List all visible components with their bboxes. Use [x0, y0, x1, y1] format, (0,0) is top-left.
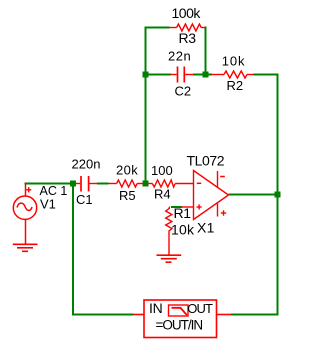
transfer function block body	[144, 300, 217, 338]
wire op-amp output	[229, 194, 279, 196]
wire top feedback horizontal	[145, 27, 170, 29]
resistor R1	[166, 207, 172, 256]
svg-text:C2: C2	[175, 84, 192, 99]
wire left feedback vertical	[145, 27, 147, 185]
svg-text:R3: R3	[179, 30, 197, 46]
node A junction	[70, 181, 76, 187]
svg-text:10k: 10k	[171, 222, 195, 238]
svg-text:OUT: OUT	[187, 301, 213, 316]
resistor R5	[109, 180, 144, 187]
svg-text:=OUT/IN: =OUT/IN	[156, 318, 203, 333]
op-amp X1 input lead plus	[182, 206, 194, 208]
svg-text:100k: 100k	[172, 5, 202, 21]
node E junction (output)	[275, 192, 281, 198]
wire bottom row right	[231, 314, 279, 316]
svg-text:100: 100	[151, 163, 173, 178]
transfer function block icon curve	[172, 308, 187, 315]
svg-text:X1: X1	[197, 220, 215, 236]
op-amp power top minus label	[220, 176, 225, 178]
resistor R2	[212, 71, 254, 78]
svg-text:R5: R5	[119, 188, 136, 203]
node C junction (C2 left)	[143, 72, 149, 78]
op-amp power bottom plus label	[221, 210, 226, 215]
op-amp minus mark	[197, 182, 201, 184]
wire R2 to right corner	[254, 75, 278, 77]
wire V1 to node A	[25, 183, 74, 185]
op-amp plus mark	[197, 204, 202, 209]
ground V1	[13, 244, 38, 251]
transfer function block icon	[169, 305, 189, 316]
wire R2 left stub	[206, 74, 213, 76]
op-amp power pin top	[217, 171, 219, 188]
node D junction (C2 right)	[203, 72, 209, 78]
plus mark V1	[26, 187, 31, 192]
node B junction (R5/R4)	[143, 181, 149, 187]
resistor R4	[148, 180, 194, 187]
capacitor C2	[171, 67, 193, 83]
svg-text:R2: R2	[227, 78, 244, 93]
capacitor C1	[76, 176, 97, 192]
op-amp power pin bottom	[217, 204, 219, 217]
wire bottom row left	[72, 314, 134, 316]
wire R1 to op-amp plus input	[171, 206, 182, 208]
resistor R3	[169, 24, 206, 31]
svg-text:20k: 20k	[116, 163, 138, 178]
svg-text:22n: 22n	[168, 49, 191, 64]
wire C2 row left	[146, 74, 172, 76]
ground R1	[157, 255, 182, 262]
wire node A down vertical	[72, 184, 74, 316]
svg-text:V1: V1	[40, 197, 56, 212]
wire C1 to R5	[97, 183, 109, 185]
svg-text:220n: 220n	[72, 157, 101, 172]
svg-text:10k: 10k	[222, 54, 246, 69]
voltage source V1	[13, 183, 36, 245]
transfer function block lead left	[134, 314, 144, 316]
op-amp X1 triangle	[194, 171, 229, 220]
wire C2 row right	[193, 74, 206, 76]
wire right of R3 vertical	[205, 27, 207, 76]
svg-text:R4: R4	[154, 187, 171, 202]
svg-text:C1: C1	[76, 192, 93, 207]
transfer function block lead right	[217, 314, 232, 316]
svg-text:IN: IN	[149, 300, 162, 316]
wire right vertical	[277, 74, 279, 316]
svg-text:TL072: TL072	[187, 153, 225, 169]
